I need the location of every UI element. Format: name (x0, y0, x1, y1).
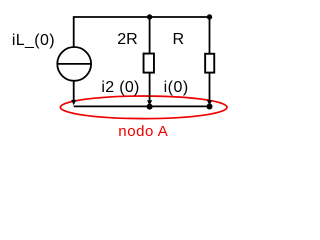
resistor 2R (144, 54, 154, 73)
wire: 2R top lead (vertical) (149, 17, 151, 53)
svg-text:iL_(0): iL_(0) (12, 32, 55, 49)
node dot: bottom junction at 2R branch (147, 104, 153, 110)
wire: R top lead (vertical) (209, 17, 211, 53)
wire: current source top lead (vertical) (73, 16, 75, 46)
node A highlight ellipse (red) (60, 96, 227, 119)
wire: 2R bottom lead with current arrow i2(0) (147, 73, 152, 106)
svg-text:2R: 2R (117, 31, 137, 48)
current source iL_(0) (circle with horizontal bar) (57, 47, 91, 81)
resistor R (205, 54, 214, 73)
node dot: bottom junction at R branch (207, 104, 213, 110)
wire: current source bottom lead with current arrow (71, 81, 76, 105)
svg-text:R: R (173, 31, 185, 48)
svg-text:i2 (0): i2 (0) (101, 79, 139, 96)
wire: R bottom lead with current arrow i(0) (207, 72, 212, 105)
svg-text:nodo A: nodo A (118, 123, 168, 140)
wire: top horizontal bus (74, 16, 210, 18)
svg-text:i(0): i(0) (164, 79, 189, 96)
node dot: top junction at 2R branch (147, 14, 152, 19)
wire: bottom horizontal bus (node A) (74, 105, 210, 107)
node dot: top junction at R branch (207, 14, 212, 19)
